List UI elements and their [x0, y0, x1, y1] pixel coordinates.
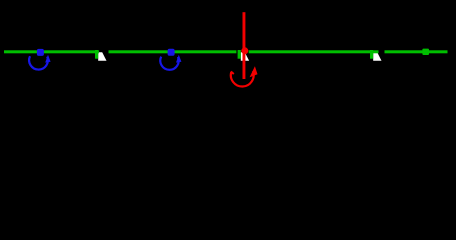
red moment arrowhead [250, 66, 258, 77]
support C green post [370, 50, 373, 59]
red moment arc [231, 71, 254, 86]
moment arrowhead 1 (blue) [45, 55, 50, 63]
support A white wedge [98, 52, 106, 61]
beam segment 1 [4, 50, 99, 53]
node square right [422, 49, 429, 55]
red load line [243, 12, 246, 79]
pin node 2 (blue) [168, 49, 175, 56]
support C white wedge [373, 52, 381, 61]
beam segment 4 [385, 50, 448, 53]
support B green post [238, 50, 241, 59]
moment arrowhead 2 (blue) [176, 55, 181, 63]
moment arc 1 (blue) [29, 56, 48, 69]
pin node 1 (blue) [37, 49, 44, 56]
support B white wedge (under red node) [241, 52, 249, 61]
moment arc 2 (blue) [160, 57, 178, 70]
beam segment 3 [249, 50, 379, 53]
red node dot [241, 47, 248, 54]
support A green post [95, 50, 98, 59]
beam segment 2 [109, 50, 237, 53]
red moment arc end stub [231, 72, 234, 75]
